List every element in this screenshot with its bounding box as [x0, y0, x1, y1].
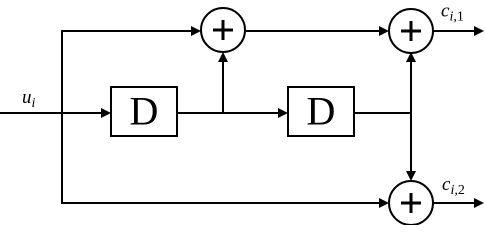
wire: output c_i,1 from adder X2 to right edge	[433, 30, 476, 32]
wire: arrowhead of output c_i,1	[474, 26, 484, 36]
wire: D2 output to right vertical rail	[354, 112, 412, 114]
wire: vertical rail from adder X2 down to adder X3	[410, 60, 412, 173]
wire: arrowhead into adder X3 left	[379, 198, 389, 208]
wire: bottom rail from branch to adder X3	[62, 202, 381, 204]
wire: arrowhead into D2 left	[278, 108, 288, 118]
wire: arrowhead down into adder X3 top	[406, 171, 416, 181]
wire: arrowhead into adder X1 left	[191, 26, 201, 36]
delay block D1	[111, 87, 177, 136]
delay block D2	[288, 87, 354, 136]
svg-text:D: D	[130, 89, 159, 134]
svg-text:D: D	[307, 89, 336, 134]
wire: arrowhead up into adder X2 bottom	[406, 52, 416, 62]
wire: vertical tap from D1 output up to adder X1	[222, 60, 224, 114]
wire: output c_i,2 from adder X3 to right edge	[433, 202, 476, 204]
adder X1 (modulo-2 adder, top middle)	[201, 8, 245, 52]
node: input branch junction (x=62) vertical wire to top and bottom rails	[61, 30, 63, 204]
wire: input segment from left edge to delay D1	[0, 112, 102, 114]
adder X2 (modulo-2 adder, top right)	[389, 9, 433, 53]
wire: D1 output to D2 input	[177, 112, 279, 114]
wire: adder X1 output to adder X2	[245, 30, 381, 32]
wire: arrowhead up into adder X1 bottom	[218, 52, 228, 62]
wire: input arrowhead into D1	[101, 108, 111, 118]
adder X3 (modulo-2 adder, bottom right)	[389, 181, 433, 225]
wire: arrowhead of output c_i,2	[474, 198, 484, 208]
wire: arrowhead into adder X2 left	[379, 26, 389, 36]
wire: top rail from branch to adder X1	[62, 30, 193, 32]
